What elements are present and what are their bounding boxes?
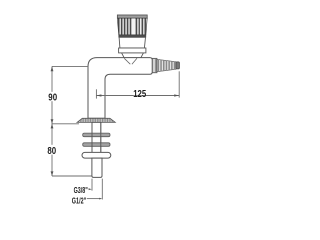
knob knurled grip [117, 18, 147, 35]
svg-text:125: 125 [133, 89, 146, 100]
ext line top (spout centerline) [52, 65, 88, 67]
ring washer 2 [83, 143, 110, 147]
svg-text:G1/2": G1/2" [72, 196, 86, 206]
thread leader line G1/2 [101, 179, 103, 200]
arrow G3/8 [89, 188, 92, 190]
arrow down to bench [51, 119, 54, 124]
neck [122, 53, 144, 58]
label 125 [133, 88, 146, 95]
arrow down [51, 171, 54, 176]
shank edge lines over washers [92, 122, 101, 152]
flange [77, 118, 115, 122]
lock nut ring [82, 152, 111, 158]
svg-text:G3/8": G3/8" [74, 185, 88, 195]
bonnet base flare [119, 48, 146, 53]
nozzle tip [176, 62, 179, 69]
tick left (riser centerline) [95, 89, 97, 98]
thread leader line G3/8 [91, 179, 93, 191]
ext line pipe end [52, 175, 92, 177]
svg-text:90: 90 [48, 93, 57, 104]
valve seat V mark [124, 58, 137, 64]
body + arm + riser outline [88, 58, 152, 119]
dim 90/80 vertical line [51, 66, 53, 176]
arrow left [96, 94, 101, 96]
knob top cap [117, 15, 147, 18]
bonnet skirt [119, 37, 145, 48]
arrow right [174, 94, 179, 96]
ext line bench level [52, 123, 79, 125]
shank [92, 122, 101, 152]
ext line nozzle tip [178, 71, 180, 97]
nozzle barbs [157, 59, 176, 71]
leader G1/2 [87, 198, 100, 200]
svg-text:80: 80 [47, 146, 56, 157]
label 90 [47, 92, 58, 101]
nozzle collar [152, 58, 157, 72]
arrow up [51, 66, 54, 71]
ring washer 1 [83, 133, 110, 137]
label 80 [47, 145, 58, 155]
bottom threaded pipe [92, 158, 102, 177]
knurl highlight [132, 18, 135, 34]
knob dark band [119, 35, 146, 38]
dim 125 line [96, 95, 179, 97]
arrow G1/2 [99, 198, 102, 200]
arrow up from bench [51, 124, 54, 129]
